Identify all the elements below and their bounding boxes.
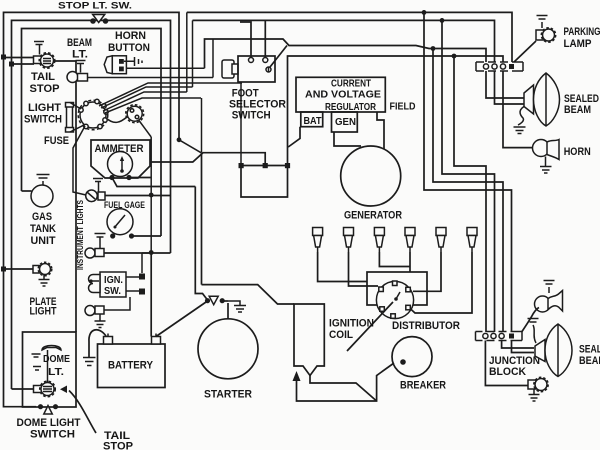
wire bus F3 inner frame [22, 29, 162, 237]
wire block2 to parking lamp 2 [485, 341, 528, 386]
svg-text:PARKING: PARKING [564, 26, 600, 38]
wire b2 drop to dot [240, 83, 242, 166]
staircase wire 4 [454, 56, 486, 332]
spark plug 3 [374, 228, 384, 253]
ammeter A1 [91, 140, 150, 178]
regulator box [296, 77, 385, 112]
spark plug 5 [436, 228, 446, 253]
GEN box [332, 112, 358, 132]
wire FIELD to generator [377, 112, 384, 149]
junction on F1 [422, 10, 427, 15]
wire plug3 [379, 252, 410, 267]
svg-text:LIGHT: LIGHT [28, 102, 61, 114]
wire battery to starter switch [156, 301, 208, 337]
wire foot sw terminal 1 up [240, 22, 251, 58]
staircase wire 2 [433, 49, 503, 333]
gas tank unit [22, 175, 54, 208]
wire horn button to bundle [126, 67, 204, 69]
fuel gauge sender [86, 179, 171, 202]
fuse [66, 103, 85, 133]
wire block1 to sealed beam 1 b [495, 71, 525, 104]
svg-text:BUTTON: BUTTON [108, 42, 150, 54]
svg-text:BLOCK: BLOCK [489, 366, 526, 378]
wire block2 to beam 2 a [502, 341, 534, 349]
wire foot sw terminal 3 diag [270, 46, 287, 68]
svg-text:FIELD: FIELD [390, 101, 416, 113]
junction block 1 [476, 62, 523, 71]
spark plug 1 [313, 228, 323, 253]
wire bus y=56 [288, 56, 504, 166]
wire BAT down [288, 127, 300, 147]
junction on y=56 [452, 54, 457, 59]
svg-text:DISTRIBUTOR: DISTRIBUTOR [392, 320, 460, 332]
svg-text:IGN.: IGN. [104, 275, 123, 286]
junction on F2 [440, 18, 445, 23]
plate light [1, 262, 52, 286]
wire main feed y=165.5 [239, 163, 291, 168]
wire drop b2 corner [212, 39, 214, 78]
wire fan b4 [103, 92, 187, 111]
beam lamp [67, 61, 213, 83]
wire tail stop to bus [1, 55, 34, 67]
breaker [392, 337, 432, 377]
svg-text:STOP: STOP [103, 441, 133, 450]
svg-text:LIGHT: LIGHT [30, 306, 57, 318]
instrument lamp 1 [85, 234, 171, 259]
ignition coil [294, 304, 324, 376]
svg-text:SWITCH: SWITCH [232, 110, 271, 122]
svg-text:UNIT: UNIT [31, 235, 56, 247]
wire switch to fuel sender [73, 126, 86, 195]
wire x195 to starter switch [195, 187, 207, 301]
dome light switch [38, 404, 58, 414]
svg-text:SW.: SW. [104, 286, 121, 297]
wire coil feed [201, 153, 203, 285]
dome lamp [4, 381, 56, 407]
wire GEN to generator [334, 132, 361, 146]
svg-text:LT.: LT. [48, 366, 64, 378]
svg-text:BEAM: BEAM [67, 37, 92, 49]
spark plug 6 [467, 228, 477, 253]
wire ammeter right [150, 153, 265, 166]
svg-text:SWITCH: SWITCH [30, 429, 75, 441]
svg-text:HORN: HORN [564, 146, 591, 158]
svg-text:DOME: DOME [43, 353, 70, 365]
wire plug5 [413, 252, 441, 291]
horn button [104, 56, 142, 74]
horn 2 [535, 281, 563, 313]
wire block1 to sealed beam 1 a [486, 71, 524, 98]
svg-text:AMMETER: AMMETER [95, 143, 144, 155]
wire bus D (y=39) [205, 39, 487, 68]
wire tail lamp feed down to dome box [54, 61, 77, 332]
ignition switch box [89, 272, 127, 297]
sealed beam 1 [524, 73, 560, 126]
wire block1 to horn 1 [503, 71, 532, 148]
svg-text:INSTRUMENT LIGHTS: INSTRUMENT LIGHTS [76, 199, 85, 270]
svg-text:LAMP: LAMP [564, 38, 592, 50]
wire bus F2 left [12, 20, 171, 389]
wire bus F1 right [187, 12, 512, 92]
wire distributor to coil HT [347, 302, 393, 351]
arrow at dome lamp [60, 386, 67, 394]
svg-text:GEN: GEN [335, 116, 356, 128]
coil arrow [293, 371, 301, 381]
svg-text:BATTERY: BATTERY [108, 360, 154, 372]
svg-text:TAIL: TAIL [31, 71, 55, 83]
battery ground wire [83, 330, 106, 366]
wire coil HT bottom [310, 376, 377, 402]
wire block2 to beam 2 b [512, 341, 535, 353]
wire vertical x178 with dot [177, 137, 201, 152]
wire bus F2 right [193, 20, 495, 87]
svg-text:COIL: COIL [329, 329, 353, 341]
svg-text:SWITCH: SWITCH [24, 114, 62, 126]
spark plug 4 [405, 228, 415, 253]
dome box [23, 332, 77, 407]
stop light switch SW1 [90, 15, 108, 24]
svg-text:FUSE: FUSE [44, 135, 69, 147]
svg-text:BEAM: BEAM [579, 355, 600, 367]
staircase wire 1 [424, 12, 512, 332]
wire bus F1 left [4, 12, 180, 399]
wire coil bottom loop [297, 363, 395, 401]
instrument lamp 2 [85, 297, 130, 328]
wire block2 to horn 2 [522, 308, 539, 332]
generator [341, 146, 401, 206]
wire ammeter bottom bus [109, 175, 195, 187]
svg-text:STOP: STOP [30, 83, 60, 95]
wire knob column x151 [149, 137, 154, 337]
svg-text:IGNITION: IGNITION [329, 318, 374, 330]
svg-text:STARTER: STARTER [204, 389, 252, 401]
spark plug 2 [344, 228, 354, 253]
svg-text:GENERATOR: GENERATOR [344, 210, 402, 222]
foot selector switch [222, 56, 275, 82]
BAT box [301, 112, 323, 127]
wire plug2 [349, 252, 379, 286]
distributor body [376, 281, 413, 319]
starter motor [198, 301, 258, 379]
parking lamp 1 [514, 16, 556, 63]
fuel gauge G1 [107, 209, 133, 235]
dome reflector [32, 346, 62, 384]
distributor cap rect [367, 272, 427, 305]
battery [98, 334, 166, 388]
svg-text:LT.: LT. [72, 49, 88, 61]
svg-text:DOME LIGHT: DOME LIGHT [17, 417, 81, 429]
svg-text:BAT: BAT [304, 115, 322, 127]
svg-text:GAS: GAS [32, 211, 52, 223]
wire fan b2 [99, 83, 242, 106]
svg-text:BREAKER: BREAKER [400, 380, 446, 392]
horn 1 [533, 140, 560, 174]
tail stop callout curve [69, 391, 96, 434]
sealed beam 1 ground squiggle [514, 107, 526, 134]
svg-text:TANK: TANK [30, 223, 56, 235]
svg-text:SEALED: SEALED [579, 344, 600, 356]
wire ign sw terminals [126, 253, 151, 295]
wire plug1 [318, 252, 367, 282]
svg-text:BEAM: BEAM [564, 104, 591, 116]
wire plug6 [409, 252, 472, 313]
parking lamp 2 [528, 377, 548, 401]
junction block 2 [476, 332, 523, 341]
starter switch [205, 296, 246, 312]
junction on y=48 [431, 46, 436, 51]
wire fuel gauge bottom [110, 233, 161, 238]
wire foot sw terminal 2 up [264, 20, 266, 57]
wire fan b5 [105, 98, 201, 113]
light switch LS [78, 99, 108, 130]
wire U loop [241, 166, 288, 198]
wire drop b5 corner down [201, 98, 203, 153]
ignition knob [106, 105, 151, 137]
wire plug4 [409, 252, 411, 272]
staircase wire 3 [442, 20, 495, 332]
svg-text:STOP LT. SW.: STOP LT. SW. [58, 1, 132, 12]
svg-text:HORN: HORN [115, 30, 146, 42]
wire fan b3 [101, 87, 193, 108]
svg-text:AND VOLTAGE: AND VOLTAGE [305, 89, 381, 101]
tail stop lamp [34, 42, 55, 69]
sealed beam 2 [528, 319, 573, 377]
